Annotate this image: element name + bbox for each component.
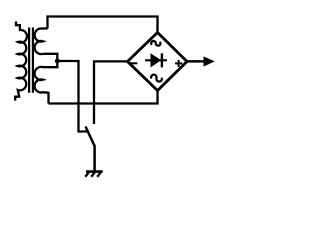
output arrowhead (204, 57, 214, 66)
wire bridge minus terminal to switch contact (94, 61, 128, 124)
ground chassis bar (86, 170, 103, 173)
transformer T1 secondary lower winding (35, 67, 49, 104)
bridge rectifier BR1 diamond body (128, 33, 188, 91)
bridge BR1 bottom AC tilde (151, 75, 162, 82)
ground hatch tick 2 (91, 172, 95, 177)
wire secondary top lead to bridge AC1 (48, 17, 158, 34)
bridge BR1 minus label (130, 62, 137, 64)
node center tap junction dot (55, 59, 60, 64)
ground hatch tick 1 (85, 172, 89, 177)
wire center tap to switch (57, 61, 87, 132)
transformer T1 core line 1 (28, 28, 30, 93)
bridge BR1 top AC tilde (151, 41, 160, 46)
wire switch to ground (93, 145, 96, 171)
switch SW1 blade (86, 127, 95, 147)
diode D1 cathode bar (161, 53, 163, 67)
transformer T1 secondary upper winding (35, 28, 48, 54)
ground hatch tick 3 (97, 172, 101, 177)
wire secondary bottom lead to bridge AC2 (49, 91, 158, 104)
transformer T1 core line 2 (32, 28, 34, 93)
diode D1 lead line (145, 59, 167, 61)
diode D1 anode triangle (151, 54, 160, 66)
wire DC output (187, 60, 205, 63)
bridge BR1 plus label (175, 60, 182, 67)
transformer T1 primary winding (15, 22, 27, 101)
transformer T1 secondary series link (43, 54, 57, 67)
